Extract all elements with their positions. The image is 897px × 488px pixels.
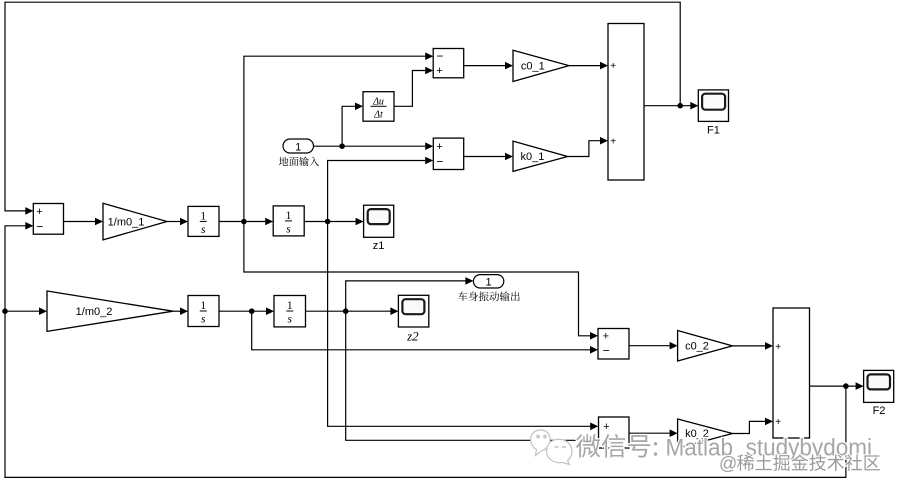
svg-text:1: 1	[295, 141, 301, 153]
svg-text:z1: z1	[373, 240, 385, 252]
svg-text:s: s	[288, 314, 293, 326]
arrowhead into scope z1	[356, 218, 364, 226]
svg-text:k0_1: k0_1	[520, 151, 544, 163]
Add1 block	[608, 24, 644, 181]
wire z2 rail down to sum4 minus	[346, 311, 591, 440]
label ground input (CJK placeholder)	[279, 157, 319, 166]
wire sum3 to gain c0_2	[629, 345, 670, 347]
wire gain c0_1 to Add1	[569, 65, 600, 67]
wire sum0 to gain 1/m0_1	[64, 221, 96, 223]
watermark	[531, 430, 880, 474]
arrowhead into integrator int2	[265, 218, 273, 226]
svg-text:+: +	[603, 331, 609, 343]
wire gain k0_2 to Add2	[732, 421, 765, 433]
junction z2dot rail	[249, 308, 255, 314]
svg-text:−: −	[436, 154, 443, 168]
svg-text:1: 1	[200, 300, 206, 312]
svg-text:1: 1	[486, 276, 492, 288]
wire int2 to scope z1	[305, 221, 356, 223]
arrowhead into sum S0 plus	[25, 207, 33, 215]
svg-text:+: +	[436, 65, 442, 77]
arrowhead into sum S1 plus	[425, 67, 433, 75]
wire Add1 to scope F1	[644, 105, 691, 107]
svg-text:1/m0_2: 1/m0_2	[76, 306, 113, 318]
arrowhead into output port 1	[465, 277, 473, 285]
arrowhead into scope z2	[390, 307, 398, 315]
wire junction to derivative	[342, 106, 355, 146]
wire F1 feedback top loop	[5, 2, 680, 211]
gain 1/m0_1	[103, 203, 167, 240]
input port 1 (ground input)	[283, 139, 314, 153]
sum block S4	[599, 417, 630, 448]
scope z1	[364, 205, 394, 252]
svg-text:1: 1	[287, 300, 293, 312]
junction z1dot rail	[241, 219, 247, 225]
wire z2dot rail down to sum3 minus	[252, 311, 591, 350]
svg-text:Δu: Δu	[372, 96, 384, 107]
arrowhead into scope F1	[690, 102, 698, 110]
svg-text:c0_1: c0_1	[521, 60, 545, 72]
wire Add2 to scope F2	[810, 385, 856, 387]
wire derivative to sum1 plus	[394, 71, 425, 107]
arrowhead into gain 1/m0_1	[95, 218, 103, 226]
svg-text:F1: F1	[707, 125, 720, 137]
arrowhead into sum S3 minus	[590, 346, 598, 354]
junction z2 rail	[343, 308, 349, 314]
svg-text:c0_2: c0_2	[685, 341, 709, 353]
svg-text:+: +	[36, 206, 42, 218]
arrowhead into gain k0_2	[670, 429, 678, 437]
scope z2	[398, 295, 428, 343]
Add2 block	[773, 308, 810, 438]
arrowhead into integrator int1	[180, 218, 188, 226]
wire branch to gain 1/m0_2	[5, 310, 39, 312]
wire input port to sum2 plus	[314, 145, 426, 147]
svg-text:1/m0_1: 1/m0_1	[108, 216, 145, 228]
label body vibration output (CJK placeholder)	[458, 291, 520, 301]
wire gain 1/m0_2 to int3	[173, 310, 180, 312]
derivative du/dt	[363, 92, 394, 122]
gain k0_1	[513, 141, 568, 171]
arrowhead into Add2 second input	[765, 418, 773, 426]
gain c0_2	[678, 331, 733, 362]
wire z1dot rail down to sum3 plus	[244, 222, 590, 336]
wire z1dot rail up to sum1 minus	[244, 56, 425, 221]
wire sum4 to gain k0_2	[629, 432, 670, 434]
scope F1	[698, 90, 728, 137]
svg-text:−: −	[36, 219, 43, 233]
junction F2 feedback / 1/m0_2 branch	[2, 308, 8, 314]
arrowhead into sum S2 minus	[425, 157, 433, 165]
arrowhead into integrator int4	[266, 307, 274, 315]
svg-text:F2: F2	[873, 405, 886, 417]
wire sum1 to gain c0_1	[464, 65, 506, 67]
arrowhead into sum S0 minus	[25, 222, 33, 230]
svg-text:+: +	[775, 417, 781, 428]
arrowhead into Add2 first input	[765, 342, 773, 350]
arrowhead into sum S2 plus	[425, 142, 433, 150]
integrator int2	[273, 206, 304, 236]
arrowhead into sum S4 minus	[590, 437, 598, 445]
wire int3 to int4	[219, 310, 266, 312]
junction ground input / derivative branch	[339, 143, 345, 149]
arrowhead into Add1 second input	[600, 137, 608, 145]
arrowhead into integrator int3	[180, 307, 188, 315]
svg-text:s: s	[286, 224, 291, 236]
arrowhead into sum S4 plus	[590, 423, 598, 431]
wire int1 to int2	[219, 221, 265, 223]
wire int4 to scope z2	[306, 310, 391, 312]
wire gain c0_2 to Add2	[732, 345, 765, 347]
svg-text:s: s	[201, 224, 206, 236]
arrowhead into sum S3 plus	[590, 332, 598, 340]
wire z2 rail up to output port	[346, 281, 466, 311]
svg-text:1: 1	[286, 210, 292, 222]
scope F2	[864, 370, 894, 417]
arrowhead into gain k0_1	[505, 153, 513, 161]
wire gain k0_1 to Add1	[568, 141, 601, 157]
junction F2 output	[843, 383, 849, 389]
arrowhead into scope F2	[856, 382, 864, 390]
junction F1 output	[677, 103, 683, 109]
svg-text:+: +	[436, 141, 442, 153]
integrator int1	[188, 206, 219, 236]
sum block S2	[433, 138, 463, 169]
gain c0_1	[513, 50, 569, 81]
integrator int4	[274, 296, 306, 327]
svg-text:1: 1	[200, 210, 206, 222]
integrator int3	[188, 296, 219, 327]
arrowhead into gain c0_1	[505, 62, 513, 70]
arrowhead into Add1 first input	[600, 62, 608, 70]
gain 1/m0_2	[47, 291, 173, 331]
svg-text:+: +	[775, 342, 781, 353]
svg-text:@: @	[719, 454, 737, 474]
sum block S3	[598, 329, 629, 360]
gain k0_2	[678, 419, 733, 448]
wire F2 feedback bottom loop	[5, 226, 846, 478]
wire sum2 to gain k0_1	[464, 156, 506, 158]
arrowhead into sum S1 minus	[425, 52, 433, 60]
sum block S1	[433, 49, 464, 78]
arrowhead into gain 1/m0_2	[39, 307, 47, 315]
arrowhead into gain c0_2	[670, 342, 678, 350]
svg-text:+: +	[603, 421, 609, 433]
output port 1 (body vibration output)	[473, 275, 503, 289]
wire gain 1/m0_1 to integrator int1	[167, 221, 180, 223]
svg-text:−: −	[436, 49, 443, 63]
arrowhead into derivative	[355, 103, 363, 111]
junction z1 rail	[325, 219, 331, 225]
wire z1 rail down to sum4 plus	[328, 222, 591, 427]
svg-text:−: −	[603, 344, 610, 358]
svg-text:+: +	[610, 61, 616, 72]
svg-text:Δt: Δt	[373, 110, 383, 121]
sum block S0	[33, 204, 63, 235]
wire z1 rail up to sum2 minus	[328, 161, 426, 222]
svg-text:+: +	[610, 136, 616, 147]
svg-text:z2: z2	[406, 329, 419, 344]
svg-text:s: s	[201, 314, 206, 326]
